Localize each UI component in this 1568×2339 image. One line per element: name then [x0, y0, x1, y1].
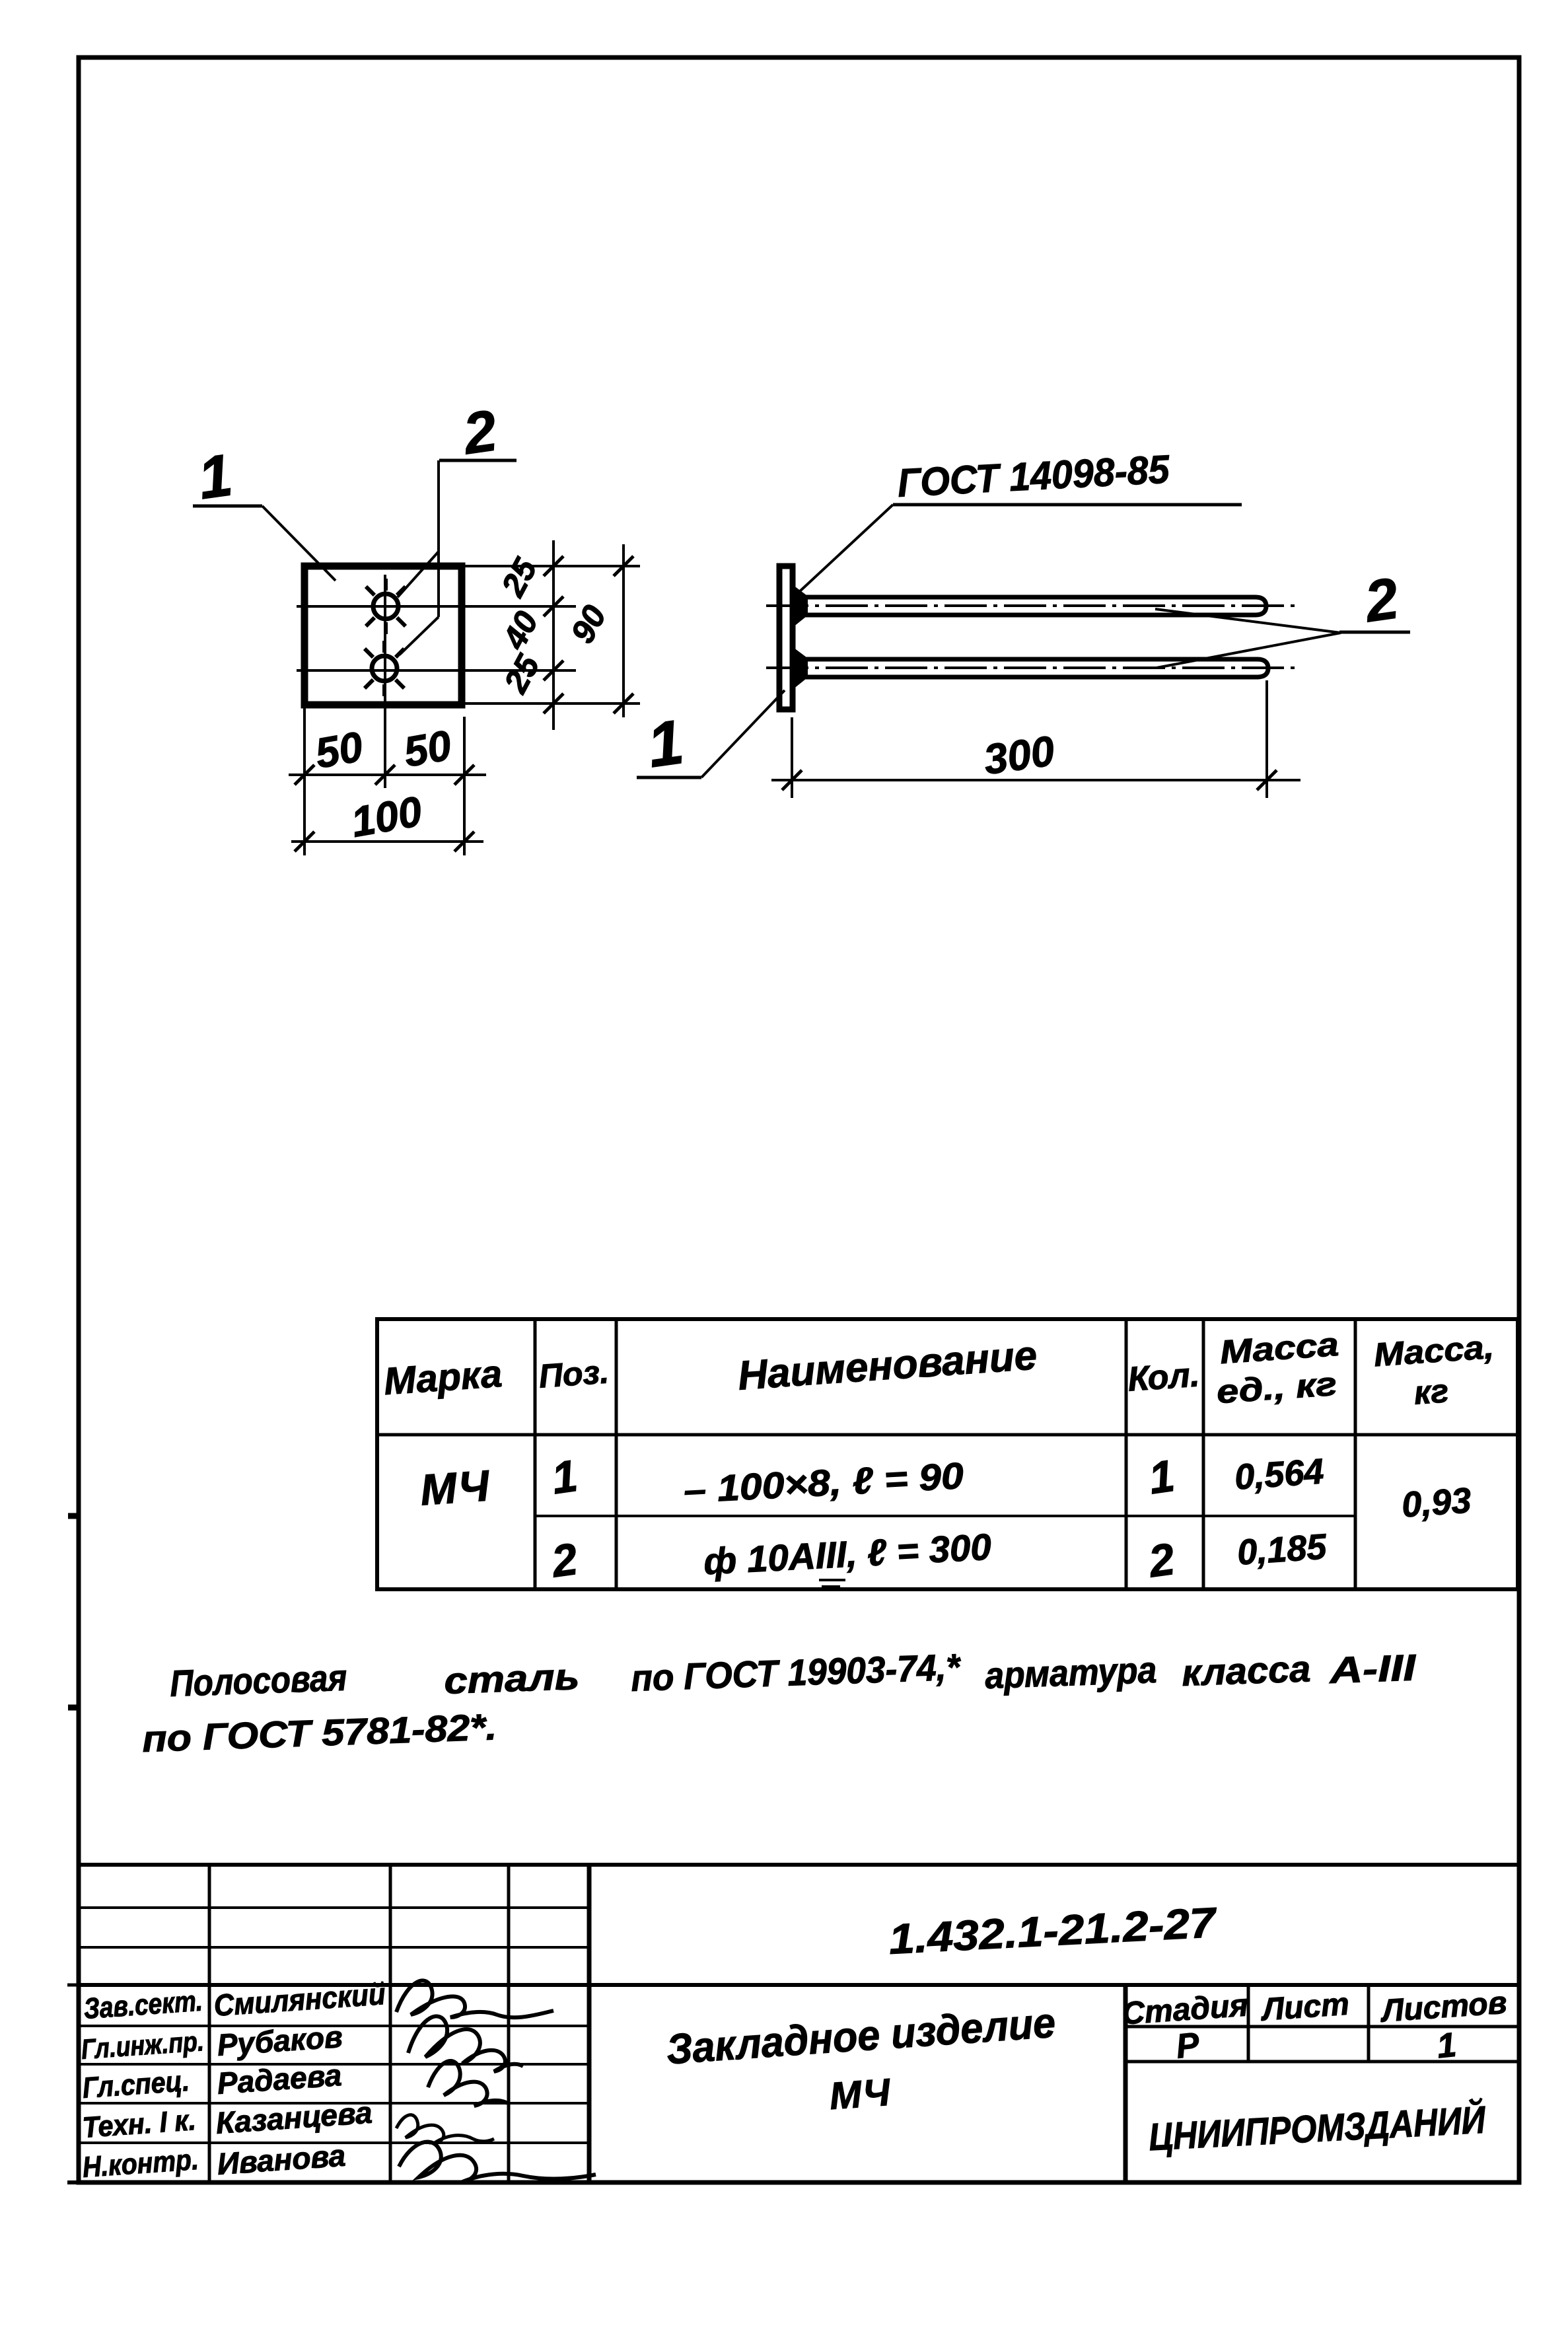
dimension line 50/50	[289, 774, 486, 776]
title block top border	[79, 1863, 1519, 1867]
fold tick on left frame lower	[68, 1705, 80, 1711]
svg-text:МЧ: МЧ	[828, 2071, 893, 2118]
stadia header bottom	[1125, 2025, 1519, 2029]
dimension line 300	[771, 779, 1301, 781]
svg-text:1: 1	[1435, 2026, 1458, 2066]
svg-text:Лист: Лист	[1259, 1987, 1350, 2028]
spokes of top circle	[366, 579, 406, 634]
column line list/listov	[1367, 1985, 1371, 2062]
tick extension left of frame at title block line	[67, 1984, 79, 1987]
hole/anchor circle bottom	[372, 656, 397, 681]
column line Kol/MassaEd	[1202, 1319, 1205, 1589]
svg-text:класса: класса	[1181, 1647, 1311, 1694]
extension line 300 right	[1265, 680, 1268, 798]
svg-text:Р: Р	[1174, 2025, 1201, 2066]
leader 2 branch to top hole	[398, 552, 439, 597]
leader 1 arrow line	[262, 506, 336, 581]
column line Poz/Naimenovanie	[615, 1319, 618, 1589]
rod item 2 top outline	[796, 597, 1266, 615]
hole/anchor circle top	[373, 594, 398, 619]
column line title / stadia section	[1123, 1985, 1128, 2182]
ticks on vertical dimension lines	[544, 556, 633, 713]
row line zav sekt bottom	[79, 2025, 589, 2027]
weld blob top	[794, 587, 807, 626]
header separator line	[377, 1433, 1518, 1437]
column line labels/names	[208, 1865, 211, 2182]
row line gl spec bottom	[79, 2102, 589, 2105]
signature radaeva	[428, 2061, 507, 2106]
signature smilyanskiy	[396, 1980, 553, 2017]
plate item 1 plan view outline	[304, 566, 462, 705]
leader 2 underline right	[1339, 631, 1410, 634]
extension line 300 left	[791, 717, 793, 798]
column line signatures/dates	[507, 1865, 511, 2182]
leader 2 vertical	[437, 460, 440, 617]
dimension line 90	[622, 544, 625, 717]
extension line bottom left	[303, 705, 306, 855]
extension line bottom right2	[463, 717, 466, 855]
rod top centre line	[766, 604, 1295, 607]
weld blob bottom	[794, 649, 807, 688]
extension line top right	[463, 565, 640, 567]
column line stadia/list	[1247, 1985, 1250, 2062]
svg-text:сталь: сталь	[443, 1655, 580, 1702]
svg-text:0,564: 0,564	[1233, 1451, 1325, 1497]
svg-text:Марка: Марка	[382, 1352, 503, 1403]
leader 1 underline side view	[637, 776, 701, 779]
signature ivanova	[399, 2142, 596, 2183]
vertical centre line through holes	[384, 575, 386, 788]
extension line bottom right	[463, 702, 640, 705]
leader 2 underline	[439, 459, 517, 462]
leader 2 branch to top rod	[1155, 609, 1341, 633]
horizontal centre line through top hole	[297, 605, 576, 608]
svg-text:50: 50	[400, 721, 455, 776]
stadia value row bottom	[1125, 2060, 1519, 2064]
ticks on 300 dimension	[782, 770, 1277, 790]
row separator line	[535, 1515, 1355, 1517]
signature kazantseva	[396, 2115, 494, 2143]
main horizontal line under doc number	[79, 1983, 1519, 1987]
column line left section / title section	[587, 1865, 592, 2182]
specification table outline	[377, 1319, 1518, 1589]
signature rubakov	[408, 2016, 523, 2071]
leader 2 branch to bottom rod	[1157, 633, 1341, 668]
row line tehn bottom	[79, 2141, 589, 2144]
ticks on horizontal dimension lines	[295, 765, 474, 851]
column line MassaEd/Massa	[1354, 1319, 1357, 1589]
leader 2 branch to bottom hole	[400, 617, 439, 655]
weld spec underline	[893, 503, 1242, 507]
column line names/signatures	[389, 1865, 392, 2182]
empty row line 2	[79, 1946, 589, 1949]
dimension line 25/40/25	[552, 540, 555, 730]
empty row line 1	[79, 1906, 589, 1909]
svg-text:0,185: 0,185	[1236, 1527, 1328, 1572]
svg-text:Поз.: Поз.	[538, 1353, 610, 1394]
svg-text:300: 300	[981, 727, 1057, 783]
svg-text:арматура: арматура	[984, 1649, 1157, 1696]
tick extension left of frame at bottom line	[67, 2180, 79, 2184]
column line Naimenovanie/Kol	[1125, 1319, 1128, 1589]
rod bottom centre line	[766, 666, 1295, 669]
column line Marka/Poz	[534, 1319, 537, 1589]
fold tick on left frame upper	[68, 1513, 80, 1519]
plate item 1 side view	[779, 566, 793, 709]
horizontal centre line through bottom hole	[297, 669, 576, 672]
row line gl inzh bottom	[79, 2063, 589, 2066]
svg-text:МЧ: МЧ	[419, 1460, 491, 1514]
leader 1 underline	[193, 505, 262, 508]
dimension line 100	[291, 840, 483, 843]
svg-text:А-III: А-III	[1328, 1646, 1417, 1691]
svg-text:0,93: 0,93	[1400, 1480, 1472, 1525]
underline of III class	[819, 1579, 845, 1581]
spokes of bottom circle	[365, 641, 404, 696]
svg-text:Кол.: Кол.	[1127, 1355, 1201, 1398]
rod item 2 bottom outline	[796, 659, 1268, 677]
leader 1 arrow line side view	[701, 690, 785, 777]
weld spec leader line	[799, 505, 893, 592]
svg-text:50: 50	[312, 723, 367, 777]
svg-text:Полосовая: Полосовая	[169, 1657, 347, 1704]
svg-text:кг: кг	[1413, 1372, 1450, 1411]
